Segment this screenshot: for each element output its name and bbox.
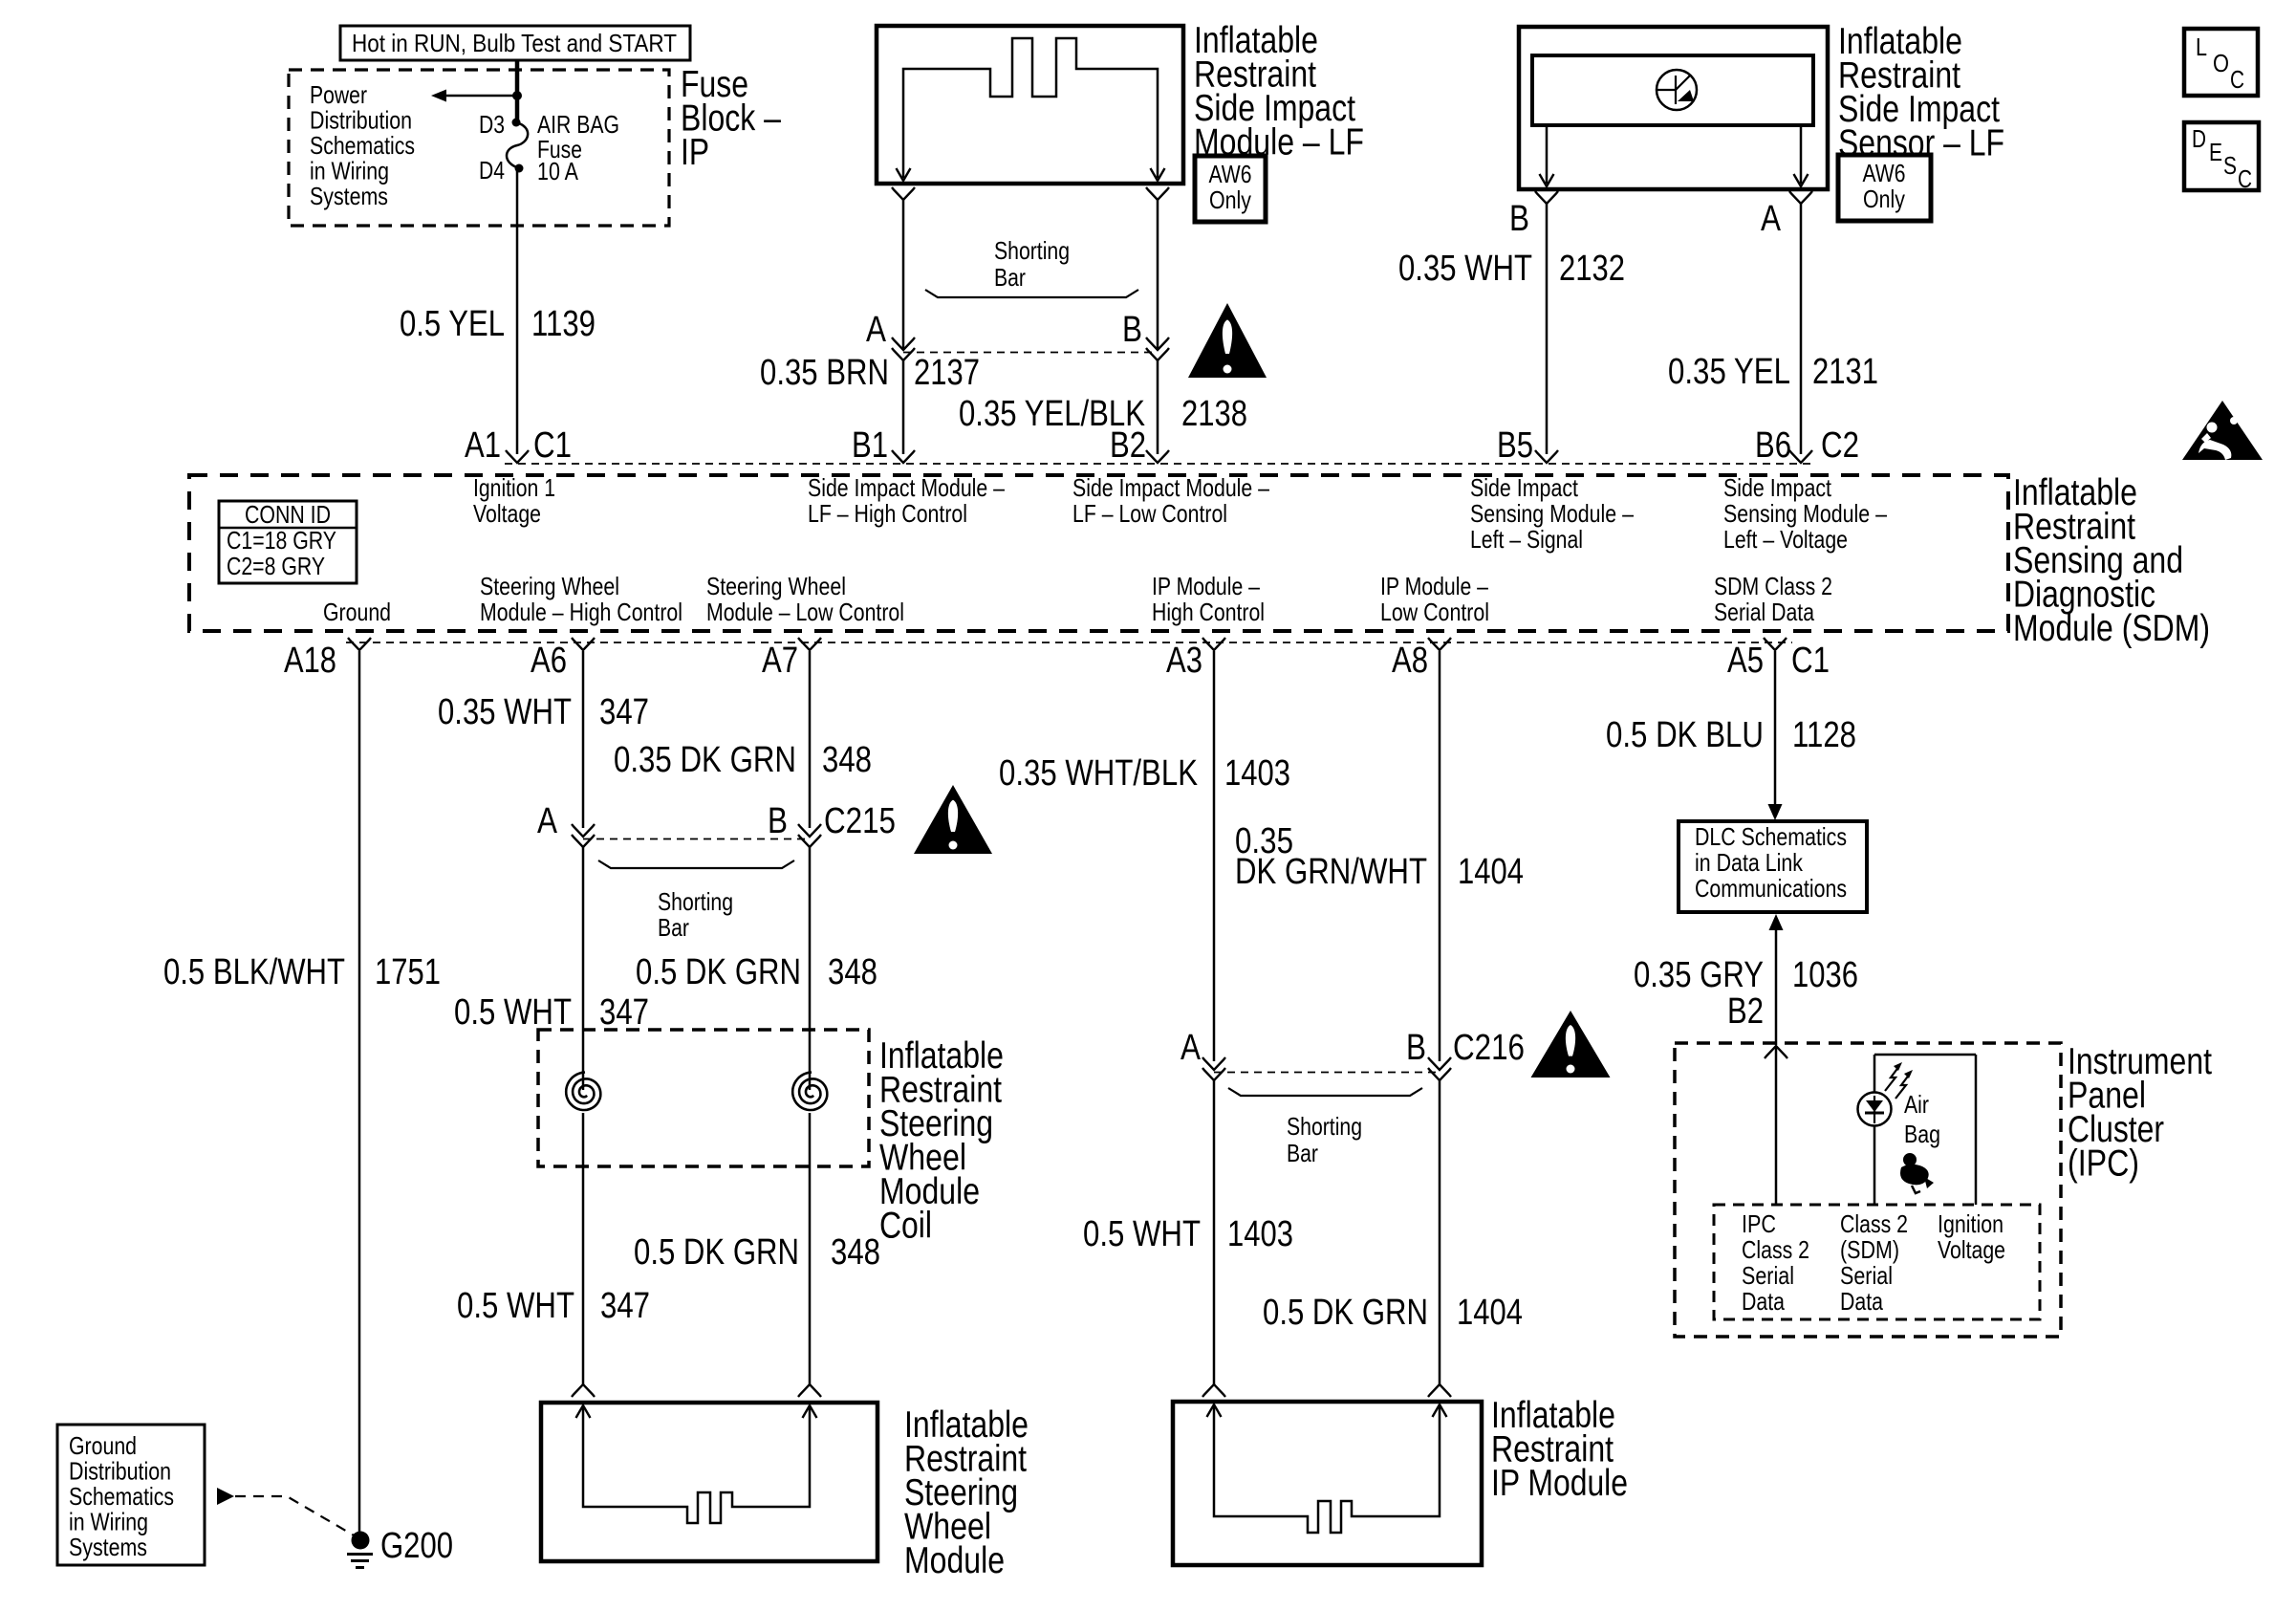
svg-text:Distribution: Distribution	[69, 1456, 171, 1485]
svg-text:B1: B1	[852, 425, 888, 466]
svg-text:0.5 DK BLU: 0.5 DK BLU	[1606, 715, 1764, 755]
svg-text:2132: 2132	[1559, 249, 1625, 289]
svg-text:0.35 WHT: 0.35 WHT	[1398, 249, 1532, 289]
svg-text:D3: D3	[479, 110, 505, 139]
svg-text:1139: 1139	[531, 304, 596, 344]
svg-text:Bag: Bag	[1904, 1120, 1940, 1148]
svg-text:1404: 1404	[1457, 1293, 1523, 1333]
svg-text:347: 347	[599, 992, 649, 1033]
svg-text:Side Impact Module –: Side Impact Module –	[808, 473, 1005, 502]
svg-text:D: D	[2192, 124, 2206, 153]
svg-text:E: E	[2209, 138, 2222, 166]
svg-text:A1: A1	[465, 425, 501, 466]
svg-text:A5: A5	[1727, 641, 1764, 681]
svg-text:(SDM): (SDM)	[1840, 1235, 1899, 1264]
svg-text:C215: C215	[824, 801, 896, 841]
svg-text:B6: B6	[1755, 425, 1791, 466]
svg-text:Shorting: Shorting	[658, 887, 733, 916]
svg-text:LF – Low Control: LF – Low Control	[1072, 499, 1227, 528]
svg-text:Module – High Control: Module – High Control	[480, 598, 682, 626]
svg-text:Left – Voltage: Left – Voltage	[1723, 525, 1848, 554]
svg-text:High Control: High Control	[1152, 598, 1265, 626]
svg-text:C1: C1	[533, 425, 572, 466]
svg-text:1403: 1403	[1227, 1214, 1293, 1254]
svg-text:C1=18 GRY: C1=18 GRY	[227, 526, 336, 555]
svg-text:CONN ID: CONN ID	[245, 500, 331, 529]
svg-text:Air: Air	[1904, 1090, 1929, 1119]
svg-text:IPC: IPC	[1742, 1209, 1776, 1238]
svg-text:Serial: Serial	[1840, 1261, 1893, 1290]
svg-text:Schematics: Schematics	[69, 1482, 174, 1511]
svg-text:IP Module –: IP Module –	[1380, 572, 1488, 600]
svg-text:SDM Class 2: SDM Class 2	[1714, 572, 1832, 600]
svg-text:S: S	[2223, 151, 2237, 180]
svg-text:C: C	[2230, 65, 2244, 94]
svg-text:in Wiring: in Wiring	[310, 156, 389, 185]
svg-text:Shorting: Shorting	[994, 236, 1070, 265]
svg-text:Sensing Module –: Sensing Module –	[1723, 499, 1887, 528]
svg-text:0.35 GRY: 0.35 GRY	[1634, 955, 1764, 995]
svg-text:A6: A6	[531, 641, 567, 681]
svg-text:0.5 DK GRN: 0.5 DK GRN	[636, 952, 801, 992]
svg-text:Bar: Bar	[658, 913, 689, 942]
svg-text:2131: 2131	[1812, 352, 1878, 392]
svg-text:1751: 1751	[375, 952, 441, 992]
svg-text:348: 348	[831, 1232, 880, 1273]
svg-text:A: A	[537, 801, 558, 841]
svg-text:Sensing Module –: Sensing Module –	[1470, 499, 1634, 528]
svg-text:A3: A3	[1166, 641, 1202, 681]
svg-text:C2: C2	[1821, 425, 1859, 466]
svg-text:Power: Power	[310, 80, 367, 109]
svg-text:Coil: Coil	[879, 1205, 932, 1246]
svg-text:A: A	[1761, 199, 1782, 239]
svg-text:Side Impact: Side Impact	[1723, 473, 1832, 502]
svg-text:Left – Signal: Left – Signal	[1470, 525, 1583, 554]
svg-text:1036: 1036	[1792, 955, 1858, 995]
svg-text:A18: A18	[284, 641, 336, 681]
svg-text:Module (SDM): Module (SDM)	[2013, 608, 2210, 649]
svg-text:A8: A8	[1392, 641, 1428, 681]
svg-text:2137: 2137	[914, 353, 980, 393]
svg-text:Shorting: Shorting	[1287, 1112, 1362, 1141]
svg-text:G200: G200	[380, 1526, 453, 1566]
svg-text:Systems: Systems	[69, 1533, 147, 1561]
svg-text:1403: 1403	[1224, 753, 1290, 794]
svg-text:in Data Link: in Data Link	[1695, 848, 1804, 877]
svg-text:in Wiring: in Wiring	[69, 1507, 148, 1535]
svg-text:O: O	[2213, 49, 2229, 77]
svg-text:Ignition 1: Ignition 1	[473, 473, 555, 502]
svg-text:Ground: Ground	[323, 598, 391, 626]
svg-text:Class 2: Class 2	[1840, 1209, 1908, 1238]
svg-text:Class 2: Class 2	[1742, 1235, 1809, 1264]
svg-text:0.35 WHT/BLK: 0.35 WHT/BLK	[999, 753, 1198, 794]
svg-text:10 A: 10 A	[537, 157, 579, 185]
svg-text:Low Control: Low Control	[1380, 598, 1489, 626]
svg-text:0.5 WHT: 0.5 WHT	[457, 1286, 574, 1326]
svg-text:A: A	[866, 310, 887, 350]
svg-text:0.5 WHT: 0.5 WHT	[1083, 1214, 1201, 1254]
svg-text:Bar: Bar	[994, 263, 1026, 292]
svg-text:A7: A7	[762, 641, 798, 681]
svg-text:Data: Data	[1742, 1287, 1785, 1316]
svg-text:Systems: Systems	[310, 182, 388, 210]
svg-text:C2=8 GRY: C2=8 GRY	[227, 552, 325, 580]
svg-text:348: 348	[828, 952, 877, 992]
svg-text:1128: 1128	[1792, 715, 1856, 755]
svg-text:C: C	[2238, 164, 2252, 193]
svg-text:B: B	[1406, 1028, 1426, 1068]
svg-text:Voltage: Voltage	[1938, 1235, 2005, 1264]
svg-text:0.5 DK GRN: 0.5 DK GRN	[1263, 1293, 1428, 1333]
svg-text:L: L	[2196, 33, 2207, 61]
svg-text:348: 348	[822, 740, 872, 780]
svg-text:B2: B2	[1727, 991, 1764, 1032]
svg-text:IP Module: IP Module	[1491, 1463, 1628, 1504]
svg-text:Module – Low Control: Module – Low Control	[706, 598, 904, 626]
svg-text:IP Module –: IP Module –	[1152, 572, 1260, 600]
svg-text:Steering Wheel: Steering Wheel	[706, 572, 846, 600]
svg-text:0.35 YEL/BLK: 0.35 YEL/BLK	[959, 394, 1145, 434]
svg-text:A: A	[1180, 1028, 1202, 1068]
svg-text:AW6: AW6	[1863, 159, 1906, 187]
svg-text:B: B	[1509, 199, 1529, 239]
svg-text:Hot in RUN, Bulb Test and STAR: Hot in RUN, Bulb Test and START	[352, 29, 677, 57]
svg-text:Distribution: Distribution	[310, 105, 412, 134]
svg-text:Serial: Serial	[1742, 1261, 1794, 1290]
svg-text:IP: IP	[681, 132, 709, 173]
svg-text:Bar: Bar	[1287, 1139, 1318, 1167]
svg-text:C1: C1	[1791, 641, 1830, 681]
svg-text:2138: 2138	[1181, 394, 1247, 434]
svg-text:B: B	[1122, 310, 1142, 350]
svg-text:0.5 DK GRN: 0.5 DK GRN	[634, 1232, 799, 1273]
svg-text:Communications: Communications	[1695, 874, 1847, 903]
svg-text:Serial Data: Serial Data	[1714, 598, 1814, 626]
svg-text:DK GRN/WHT: DK GRN/WHT	[1235, 852, 1427, 892]
svg-text:0.35 DK GRN: 0.35 DK GRN	[614, 740, 796, 780]
svg-text:0.5 YEL: 0.5 YEL	[400, 304, 505, 344]
svg-text:LF – High Control: LF – High Control	[808, 499, 967, 528]
svg-text:B5: B5	[1497, 425, 1533, 466]
svg-text:C216: C216	[1453, 1028, 1525, 1068]
svg-text:0.5 BLK/WHT: 0.5 BLK/WHT	[163, 952, 345, 992]
svg-text:D4: D4	[479, 156, 505, 185]
svg-text:Ground: Ground	[69, 1431, 137, 1460]
svg-text:Sensor – LF: Sensor – LF	[1838, 122, 2004, 163]
svg-text:Side Impact: Side Impact	[1470, 473, 1579, 502]
svg-text:B: B	[768, 801, 788, 841]
svg-text:347: 347	[600, 1286, 650, 1326]
svg-text:DLC Schematics: DLC Schematics	[1695, 822, 1847, 851]
svg-text:347: 347	[599, 692, 649, 732]
svg-text:Voltage: Voltage	[473, 499, 541, 528]
svg-text:Data: Data	[1840, 1287, 1883, 1316]
svg-text:Module: Module	[904, 1540, 1005, 1581]
svg-text:1404: 1404	[1458, 852, 1524, 892]
svg-text:Ignition: Ignition	[1938, 1209, 2004, 1238]
svg-text:Schematics: Schematics	[310, 131, 415, 160]
svg-text:Only: Only	[1863, 185, 1905, 213]
svg-text:0.35 BRN: 0.35 BRN	[760, 353, 889, 393]
svg-text:Side Impact Module –: Side Impact Module –	[1072, 473, 1269, 502]
svg-text:0.35 WHT: 0.35 WHT	[438, 692, 572, 732]
svg-text:Only: Only	[1209, 185, 1251, 214]
svg-text:0.5 WHT: 0.5 WHT	[454, 992, 572, 1033]
svg-text:Steering Wheel: Steering Wheel	[480, 572, 619, 600]
svg-text:0.35 YEL: 0.35 YEL	[1668, 352, 1790, 392]
svg-text:AW6: AW6	[1209, 160, 1252, 188]
svg-text:(IPC): (IPC)	[2068, 1143, 2139, 1184]
